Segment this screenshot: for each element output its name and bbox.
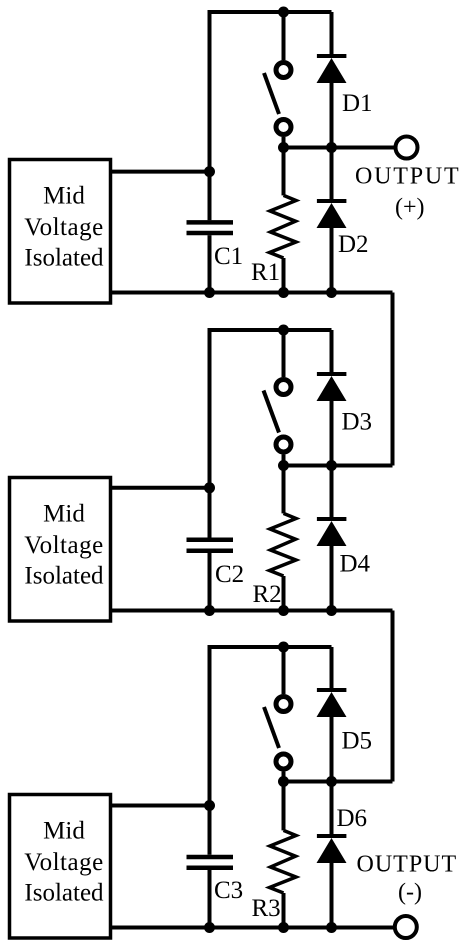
- svg-text:D5: D5: [342, 728, 373, 755]
- svg-text:(+): (+): [395, 195, 425, 221]
- svg-text:R3: R3: [252, 895, 281, 922]
- svg-text:Isolated: Isolated: [24, 880, 104, 907]
- svg-text:OUTPUT: OUTPUT: [357, 852, 458, 878]
- svg-text:C2: C2: [215, 561, 244, 588]
- svg-text:C1: C1: [214, 243, 243, 270]
- svg-text:D6: D6: [337, 805, 368, 832]
- svg-text:Isolated: Isolated: [24, 245, 104, 272]
- svg-text:Mid: Mid: [43, 818, 85, 845]
- svg-text:(-): (-): [398, 880, 422, 906]
- svg-text:Voltage: Voltage: [24, 849, 103, 876]
- svg-text:Mid: Mid: [43, 183, 85, 210]
- svg-text:R1: R1: [251, 259, 280, 286]
- svg-text:Voltage: Voltage: [24, 532, 103, 559]
- svg-text:D1: D1: [342, 90, 373, 117]
- svg-text:OUTPUT: OUTPUT: [355, 164, 460, 190]
- svg-text:C3: C3: [214, 877, 243, 904]
- svg-text:D2: D2: [338, 231, 369, 258]
- svg-text:Voltage: Voltage: [24, 214, 103, 241]
- svg-text:R2: R2: [253, 581, 282, 608]
- svg-text:D3: D3: [342, 409, 373, 436]
- svg-text:Mid: Mid: [43, 501, 85, 528]
- svg-text:Isolated: Isolated: [24, 563, 104, 590]
- svg-text:D4: D4: [340, 551, 371, 578]
